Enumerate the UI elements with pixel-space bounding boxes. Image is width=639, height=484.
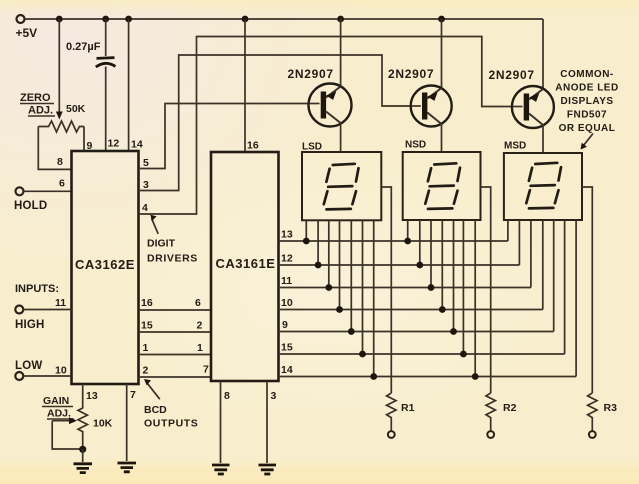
svg-text:13: 13 [86, 390, 98, 402]
svg-text:COMMON-: COMMON- [560, 69, 614, 80]
wire pin 3 of U2 to ground [267, 381, 277, 463]
svg-text:DISPLAYS: DISPLAYS [560, 96, 613, 107]
svg-text:6: 6 [59, 178, 65, 190]
svg-text:+5V: +5V [16, 26, 38, 40]
node LSD pin2 [315, 262, 322, 269]
wire Q3 collector to MSD [542, 125, 544, 153]
wire MSD pin6 [564, 220, 566, 354]
wire NSD pin6 [462, 220, 464, 354]
wire NSD pin2 [419, 220, 421, 265]
svg-text:0.27µF: 0.27µF [66, 41, 101, 53]
svg-text:1: 1 [197, 342, 203, 354]
wire pot left end to pin 8 [38, 127, 71, 170]
wire NSD pin7 [474, 220, 476, 377]
IC U2 CA3161E BCD decoder/driver [211, 140, 279, 382]
node rail-pin16 [242, 16, 249, 23]
wire Q2 collector to NSD [441, 124, 443, 152]
INPUTS HIGH terminal pin 11 [15, 283, 72, 331]
digit 8 in NSD [425, 163, 460, 209]
wire pin 3 to Q2 base [139, 55, 412, 191]
node gain pot bottom [79, 446, 86, 453]
svg-text:4: 4 [142, 202, 148, 214]
svg-text:5: 5 [143, 157, 149, 169]
node rail-zero-adj [56, 16, 63, 23]
+5V terminal [16, 15, 38, 40]
svg-text:6: 6 [195, 297, 201, 309]
wire rail to Q1 emitter [340, 19, 342, 87]
wire pin 8 of U2 to ground [221, 381, 231, 463]
wire +5V supply rail [25, 18, 543, 20]
node LSD pin3 [325, 284, 332, 291]
svg-text:8: 8 [57, 156, 63, 168]
DIGIT DRIVERS label with arrow [147, 215, 198, 265]
wire MSD pin3 [530, 220, 532, 288]
wire rail to Q3 emitter [542, 19, 544, 89]
ground below pin 8 [212, 465, 230, 474]
wire MSD pin1 [507, 220, 509, 241]
svg-text:OR EQUAL: OR EQUAL [559, 123, 616, 134]
ground below gain pot [74, 449, 93, 473]
terminal R1 [388, 431, 395, 438]
svg-text:3: 3 [143, 179, 149, 191]
ground below pin 3 [259, 465, 277, 474]
svg-text:2N2907: 2N2907 [288, 67, 334, 81]
svg-text:11: 11 [281, 275, 292, 287]
wire LSD pin1 [305, 220, 307, 241]
wire segment f pin15 row [279, 342, 565, 355]
svg-text:CA3161E: CA3161E [216, 256, 276, 271]
svg-text:R3: R3 [604, 402, 618, 414]
wire pot right end to pin 9 [83, 127, 85, 152]
node rail-Q1 [337, 16, 344, 23]
wire LSD pin7 [373, 220, 375, 376]
IC U1 CA3162E A/D converter [72, 151, 139, 384]
wire LSD pin5 [350, 220, 352, 331]
wire LSD dp to R1 [381, 187, 391, 393]
svg-text:12: 12 [281, 253, 293, 265]
wire segment a pin13 row [279, 229, 508, 242]
potentiometer ZERO ADJ 50K [20, 92, 86, 132]
node rail-C1 [102, 16, 109, 23]
svg-text:16: 16 [247, 140, 259, 152]
resistor R1 [387, 393, 415, 431]
svg-text:2: 2 [197, 320, 203, 332]
wire NSD pin3 [430, 220, 432, 288]
INPUTS LOW terminal pin 10 [15, 360, 72, 380]
svg-text:15: 15 [281, 342, 293, 354]
node LSD pin6 [359, 351, 366, 358]
wire BCD bit pin15 to pin2 [139, 320, 212, 333]
wire segment g pin14 row [279, 364, 577, 377]
wire pin 5 to Q1 base [139, 104, 309, 170]
svg-text:14: 14 [131, 139, 143, 151]
wire NSD pin4 [441, 220, 443, 310]
svg-text:9: 9 [282, 319, 288, 331]
capacitor C1 0.27uF [66, 19, 115, 151]
svg-text:OUTPUTS: OUTPUTS [144, 418, 198, 430]
wire NSD pin1 [407, 220, 409, 241]
wire LSD pin3 [328, 220, 330, 287]
wire BCD bit pin2 to pin7 [139, 364, 212, 378]
svg-text:DIGIT: DIGIT [147, 238, 176, 250]
wire NSD dp to R2 [481, 187, 491, 393]
wire BCD bit pin16 to pin6 [139, 297, 212, 310]
svg-text:1: 1 [143, 342, 149, 354]
svg-text:R2: R2 [503, 402, 517, 414]
display DS3 MSD [504, 141, 582, 221]
svg-text:10: 10 [281, 297, 293, 309]
digit 8 in LSD [324, 164, 359, 210]
svg-text:16: 16 [141, 297, 153, 309]
wire MSD pin5 [553, 220, 555, 332]
wire pin 7 to ground [127, 384, 136, 461]
node LSD pin4 [336, 306, 343, 313]
svg-text:10K: 10K [93, 418, 113, 430]
wire MSD dp to R3 [582, 187, 592, 393]
node LSD pin5 [348, 328, 355, 335]
svg-text:50K: 50K [66, 103, 86, 115]
node LSD pin7 [370, 373, 377, 380]
svg-text:NSD: NSD [405, 140, 426, 151]
node rail-pin14 [125, 16, 132, 23]
svg-text:ZERO: ZERO [20, 92, 51, 104]
svg-text:13: 13 [281, 229, 293, 241]
svg-text:INPUTS:: INPUTS: [15, 283, 59, 295]
terminal R3 [589, 431, 596, 438]
svg-text:MSD: MSD [504, 141, 526, 152]
potentiometer GAIN ADJ 10K on pin 13 [42, 384, 113, 450]
wire NSD pin5 [453, 220, 455, 332]
node NSD pin3 [428, 284, 435, 291]
svg-text:10: 10 [55, 365, 67, 377]
svg-text:8: 8 [224, 390, 230, 402]
svg-text:7: 7 [130, 389, 136, 401]
svg-text:2: 2 [143, 365, 149, 377]
node NSD pin4 [439, 306, 446, 313]
svg-text:ADJ.: ADJ. [47, 408, 71, 420]
node NSD pin6 [460, 351, 467, 358]
wire MSD pin7 [575, 220, 577, 377]
svg-text:12: 12 [108, 138, 120, 150]
svg-text:3: 3 [271, 390, 277, 402]
svg-text:14: 14 [281, 364, 293, 376]
pin 9 label [87, 140, 93, 152]
wire rail to pin 16 of U2 [244, 19, 246, 152]
pin 14 label [131, 139, 143, 151]
wire segment b pin12 row [279, 253, 520, 266]
svg-text:GAIN: GAIN [43, 395, 69, 407]
wire rail to pin 14 [128, 19, 130, 151]
svg-text:DRIVERS: DRIVERS [147, 253, 198, 265]
wire LSD pin2 [317, 220, 319, 265]
wire LSD pin6 [362, 220, 364, 354]
svg-text:CA3162E: CA3162E [75, 257, 135, 272]
node NSD pin7 [472, 373, 479, 380]
resistor R3 [588, 393, 617, 431]
svg-text:ADJ.: ADJ. [28, 105, 53, 117]
wire pin 4 to Q3 base [139, 37, 513, 215]
svg-text:HIGH: HIGH [15, 319, 45, 331]
wire segment e pin9 row [279, 319, 554, 332]
transistor Q1 2N2907 [288, 67, 352, 127]
display DS2 NSD [403, 140, 481, 221]
svg-text:15: 15 [141, 320, 153, 332]
svg-text:7: 7 [203, 364, 209, 376]
wire rail to zero-adj wiper [56, 19, 63, 120]
COMMON-ANODE LED DISPLAYS note with arrow [555, 69, 618, 150]
svg-text:LSD: LSD [302, 142, 322, 153]
wire BCD bit pin1 to pin1 [139, 342, 212, 355]
wire MSD pin2 [518, 220, 520, 265]
HOLD terminal pin 6 [14, 178, 72, 213]
display DS1 LSD [302, 142, 381, 221]
svg-text:2N2907: 2N2907 [388, 67, 434, 81]
wire LSD pin4 [339, 220, 341, 309]
node NSD pin2 [416, 262, 423, 269]
digit 8 in MSD [526, 163, 561, 209]
transistor Q2 2N2907 [388, 67, 452, 127]
BCD OUTPUTS label with arrow [144, 379, 198, 430]
resistor R2 [486, 393, 517, 431]
node NSD pin1 [404, 238, 411, 245]
svg-text:2N2907: 2N2907 [489, 68, 535, 82]
wire MSD pin4 [542, 220, 544, 310]
transistor Q3 2N2907 [489, 68, 554, 128]
svg-text:HOLD: HOLD [14, 200, 47, 212]
svg-text:9: 9 [87, 140, 93, 152]
node NSD pin5 [450, 328, 457, 335]
terminal R2 [487, 431, 494, 438]
wire rail to Q2 emitter [441, 19, 443, 89]
svg-text:BCD: BCD [144, 404, 167, 416]
svg-text:LOW: LOW [15, 360, 42, 372]
svg-text:ANODE LED: ANODE LED [555, 83, 618, 94]
wire segment c pin11 row [279, 275, 531, 288]
wire segment d pin10 row [279, 297, 543, 310]
wire Q1 collector to LSD [340, 123, 342, 152]
svg-text:R1: R1 [401, 402, 415, 414]
node rail-Q2 [438, 16, 445, 23]
node LSD pin1 [303, 238, 310, 245]
svg-text:FND507: FND507 [567, 110, 607, 121]
ground below pin 7 [118, 463, 137, 472]
pin 12 label [108, 138, 120, 150]
svg-text:11: 11 [55, 297, 66, 309]
